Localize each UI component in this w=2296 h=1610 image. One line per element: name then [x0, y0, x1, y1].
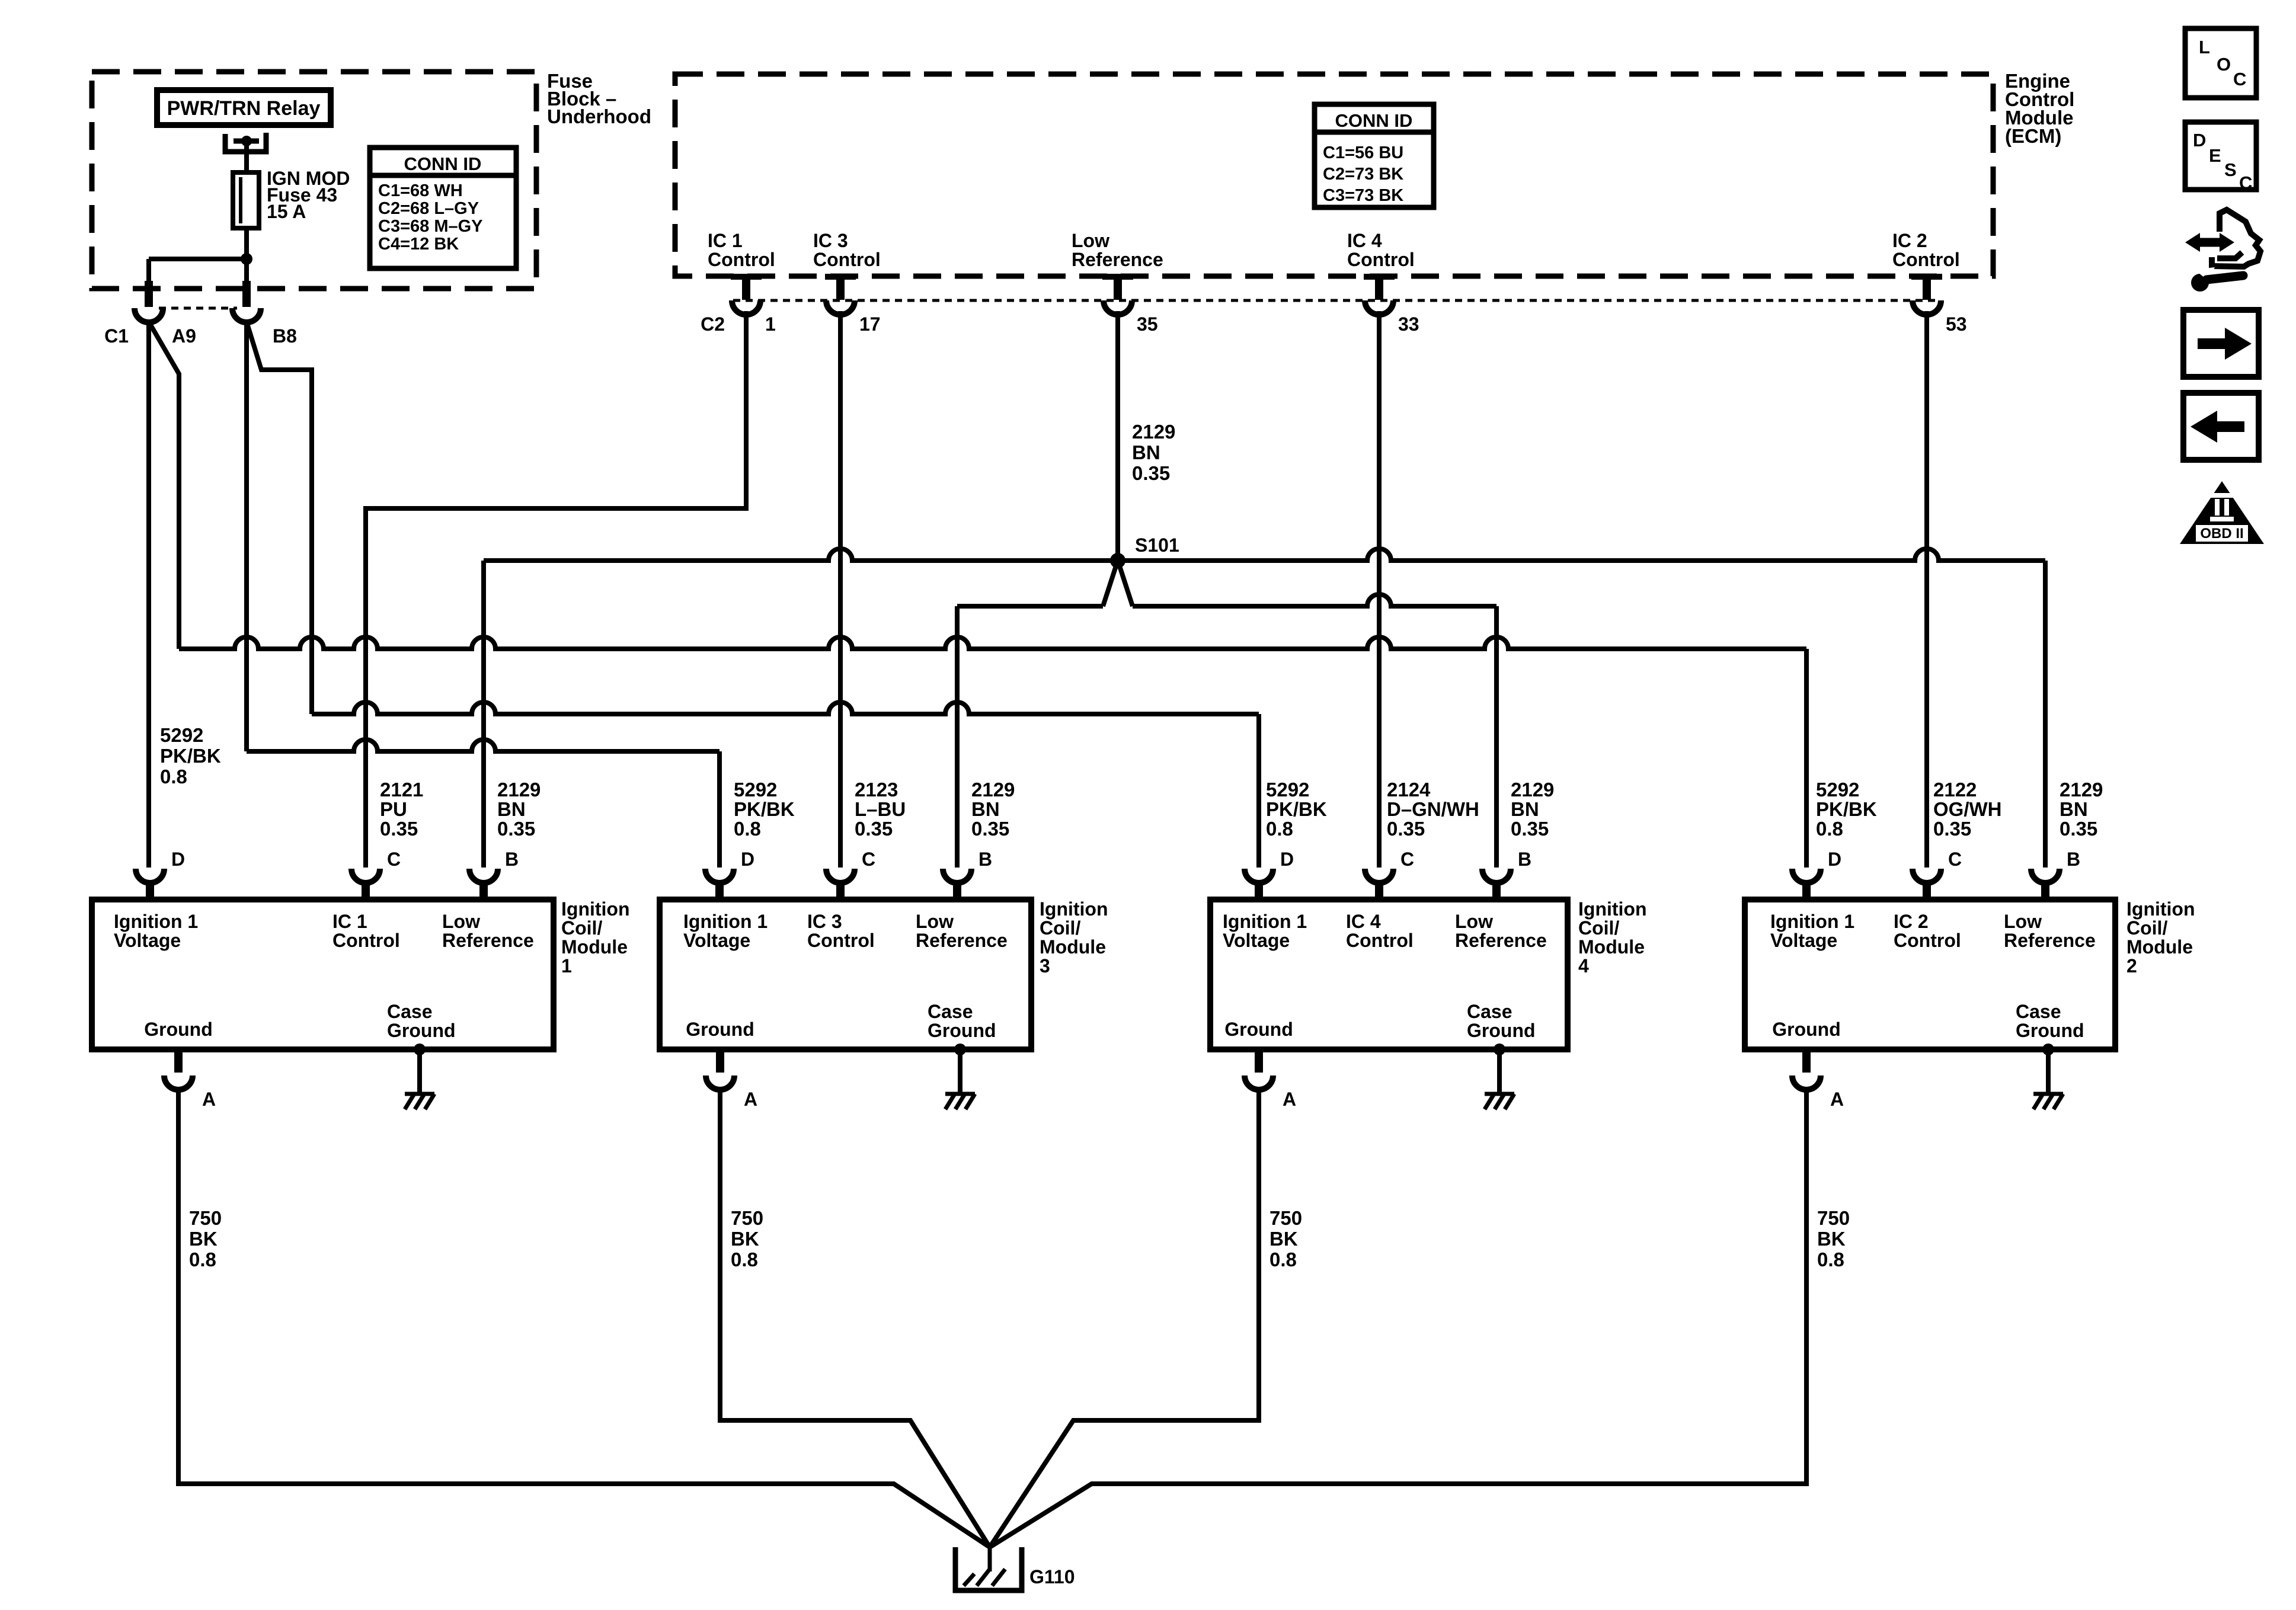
- coil4 pin A cup: [1245, 1076, 1273, 1090]
- coil3 pin C stub: [836, 882, 845, 902]
- conn table CONN ID (fuse block): [370, 148, 516, 268]
- svg-text:Coil/: Coil/: [1040, 917, 1080, 939]
- conn table CONN ID (ECM): [1315, 104, 1434, 207]
- svg-text:OG/WH: OG/WH: [1933, 798, 2001, 820]
- svg-text:G110: G110: [1029, 1566, 1075, 1587]
- svg-text:5292: 5292: [1816, 779, 1859, 801]
- svg-text:Ground: Ground: [1467, 1020, 1536, 1041]
- svg-text:Reference: Reference: [442, 930, 534, 951]
- ignition coil/module 1 box: [92, 900, 554, 1049]
- icon shift pattern with wrench: [2185, 210, 2260, 292]
- svg-text:D: D: [741, 849, 754, 870]
- svg-text:17: 17: [859, 313, 881, 335]
- coil2 pin A cup: [1792, 1076, 1821, 1090]
- label 2129 BN 0.35 (coil2): [2060, 779, 2103, 840]
- ECM pin 33 stub: [1364, 274, 1395, 300]
- coil1 pin C stub: [362, 882, 370, 902]
- svg-text:C3=73 BK: C3=73 BK: [1323, 186, 1403, 205]
- svg-text:D: D: [2193, 130, 2206, 151]
- svg-text:CONN ID: CONN ID: [1335, 110, 1413, 131]
- svg-text:Control: Control: [708, 249, 775, 270]
- wire 2123 ECM pin17 to coil3 C: [838, 311, 843, 868]
- svg-text:15 A: 15 A: [267, 201, 306, 222]
- wire S101 branch left to coil3 B: [957, 606, 1103, 868]
- svg-text:0.8: 0.8: [160, 766, 187, 788]
- svg-text:D–GN/WH: D–GN/WH: [1387, 798, 1479, 820]
- svg-text:B: B: [2067, 849, 2080, 870]
- coil1 label Case Ground: [387, 1001, 456, 1041]
- svg-text:Underhood: Underhood: [547, 105, 651, 127]
- coil1 label Ignition 1 Voltage: [114, 911, 198, 951]
- label 5292 PK/BK 0.8 (coil4): [1266, 779, 1327, 840]
- svg-text:2121: 2121: [380, 779, 423, 801]
- wire B8 drop to coil3 D: [717, 751, 722, 868]
- coil4 pin D stub: [1255, 882, 1263, 902]
- coil2 pin C label: [1948, 849, 1962, 870]
- svg-text:33: 33: [1398, 313, 1419, 335]
- svg-text:IC 4: IC 4: [1346, 911, 1381, 932]
- coil2 pin B stub: [2041, 882, 2049, 902]
- svg-text:A: A: [1830, 1089, 1844, 1110]
- svg-text:BN: BN: [1132, 441, 1160, 463]
- svg-text:A9: A9: [172, 325, 196, 347]
- svg-text:Reference: Reference: [2004, 930, 2096, 951]
- coil4 pin B cup: [1482, 869, 1511, 883]
- coil3 pin A cup: [706, 1076, 734, 1090]
- coil3 pin C cup: [826, 869, 855, 883]
- coil1 pin C label: [387, 849, 401, 870]
- svg-text:Coil/: Coil/: [1578, 917, 1619, 939]
- svg-text:A: A: [1283, 1089, 1296, 1110]
- svg-text:D: D: [1280, 849, 1294, 870]
- label C2: [701, 313, 725, 335]
- coil2 pin B cup: [2031, 869, 2060, 883]
- svg-text:Control: Control: [1894, 930, 1961, 951]
- svg-text:C: C: [2239, 172, 2252, 193]
- coil4 case ground dot: [1494, 1044, 1505, 1055]
- svg-text:Low: Low: [442, 911, 480, 932]
- label 2129 BN 0.35 (coil4): [1511, 779, 1554, 840]
- svg-text:Reference: Reference: [1455, 930, 1547, 951]
- svg-text:Voltage: Voltage: [1770, 930, 1837, 951]
- coil4 pin C label: [1400, 849, 1414, 870]
- svg-text:Ignition 1: Ignition 1: [114, 911, 198, 932]
- ECM pin 1 label: [708, 230, 775, 270]
- svg-text:5292: 5292: [160, 724, 203, 746]
- svg-text:4: 4: [1578, 955, 1589, 977]
- svg-text:Ground: Ground: [2016, 1020, 2084, 1041]
- svg-text:0.35: 0.35: [380, 818, 418, 840]
- svg-text:Low: Low: [1072, 230, 1109, 251]
- ignition coil/module 3 box: [660, 900, 1031, 1049]
- label 2124 D-GN/WH 0.35: [1387, 779, 1479, 840]
- svg-text:Ignition 1: Ignition 1: [1770, 911, 1854, 932]
- wire A9 bus drop to coil2 D: [1804, 649, 1809, 868]
- svg-text:Control: Control: [1346, 930, 1414, 951]
- svg-text:C4=12 BK: C4=12 BK: [378, 235, 459, 254]
- coil1 label IC 1 Control: [332, 911, 400, 951]
- svg-text:Low: Low: [2004, 911, 2042, 932]
- coil1 pin B label: [505, 849, 519, 870]
- wire 750 coil2 A to G110: [990, 1087, 1806, 1547]
- svg-text:0.35: 0.35: [2060, 818, 2097, 840]
- svg-text:0.35: 0.35: [497, 818, 535, 840]
- svg-text:Ignition: Ignition: [2126, 898, 2195, 920]
- svg-text:Control: Control: [1892, 249, 1960, 270]
- coil4 pin D cup: [1245, 869, 1273, 883]
- icon OBD II triangle: [2180, 481, 2264, 544]
- ECM pin 53 label: [1892, 230, 1960, 270]
- svg-text:IC 3: IC 3: [807, 911, 842, 932]
- svg-text:PK/BK: PK/BK: [160, 745, 221, 767]
- ECM pin 33 connector cup: [1365, 300, 1393, 315]
- wire S101 bus drop to coil2 B: [2043, 561, 2048, 868]
- svg-text:IC 2: IC 2: [1892, 230, 1927, 251]
- coil2 label Case Ground: [2016, 1001, 2084, 1041]
- label Fuse Block - Underhood: [547, 70, 651, 127]
- svg-text:2: 2: [2126, 955, 2137, 977]
- svg-text:C: C: [862, 849, 875, 870]
- coil4 pin C stub: [1375, 882, 1383, 902]
- label 750 BK 0.8 (coil1): [189, 1207, 222, 1270]
- svg-text:2124: 2124: [1387, 779, 1431, 801]
- splice S101 dot: [1110, 553, 1125, 568]
- svg-text:S: S: [2224, 159, 2237, 180]
- svg-text:2129: 2129: [2060, 779, 2103, 801]
- coil4 label Low Reference: [1455, 911, 1547, 951]
- ignition coil/module 2 box: [1745, 900, 2115, 1049]
- coil1 side label Ignition Coil/ Module 1: [561, 898, 630, 977]
- coil3 label Case Ground: [928, 1001, 996, 1041]
- svg-text:5292: 5292: [1266, 779, 1309, 801]
- wire 2121 ECM pin1 jog: [366, 311, 746, 868]
- junction dot fuse block: [241, 253, 252, 265]
- svg-text:Case: Case: [387, 1001, 433, 1022]
- ECM pin 17 stub: [825, 274, 856, 300]
- coil2 pin D cup: [1792, 869, 1821, 883]
- ground G110 symbol: [955, 1547, 1022, 1590]
- ECM dashed enclosure: [675, 74, 1993, 276]
- svg-text:0.8: 0.8: [1266, 818, 1293, 840]
- svg-text:Coil/: Coil/: [561, 917, 602, 939]
- svg-text:Module: Module: [561, 936, 628, 958]
- coil2 label Low Reference: [2004, 911, 2096, 951]
- svg-text:L: L: [2199, 37, 2210, 57]
- label 750 BK 0.8 (coil2): [1817, 1207, 1850, 1270]
- svg-text:1: 1: [561, 955, 572, 977]
- svg-text:C: C: [387, 849, 401, 870]
- wire fuse-block branch to A9: [149, 259, 247, 281]
- svg-text:0.8: 0.8: [1817, 1249, 1844, 1270]
- coil2 chassis ground symbol: [2033, 1094, 2063, 1109]
- coil2 pin D label: [1828, 849, 1841, 870]
- coil1 pin B cup: [469, 869, 498, 883]
- svg-text:BK: BK: [731, 1228, 759, 1250]
- coil1 case ground stem: [417, 1049, 422, 1094]
- label 2123 L-BU 0.35: [855, 779, 906, 840]
- svg-text:C: C: [2233, 69, 2246, 89]
- svg-text:2129: 2129: [1511, 779, 1554, 801]
- label G110: [1029, 1566, 1075, 1587]
- connector cup C1/B8: [232, 308, 261, 322]
- svg-text:BK: BK: [1269, 1228, 1298, 1250]
- ECM pin 33 label: [1347, 230, 1415, 270]
- coil4 pin D label: [1280, 849, 1294, 870]
- coil1 pin C cup: [351, 869, 380, 883]
- coil3 pin D cup: [705, 869, 734, 883]
- svg-text:2123: 2123: [855, 779, 898, 801]
- svg-text:0.35: 0.35: [971, 818, 1009, 840]
- label 2129 BN 0.35 (coil3): [971, 779, 1015, 840]
- svg-text:C2=73 BK: C2=73 BK: [1323, 165, 1403, 184]
- wire 750 coil3 A to G110: [720, 1087, 990, 1547]
- ECM pin 35 label: [1072, 230, 1163, 270]
- svg-text:IC 1: IC 1: [708, 230, 743, 251]
- svg-text:Case: Case: [2016, 1001, 2061, 1022]
- coil2 label Ground: [1772, 1019, 1841, 1040]
- coil3 pin D stub: [715, 882, 724, 902]
- label 5292 PK/BK 0.8 (coil1): [160, 724, 221, 788]
- fuse F43 IGN MOD symbol: [233, 172, 259, 228]
- wire S101 V diagonals: [1103, 561, 1133, 606]
- connector cup C1/A9: [135, 308, 163, 322]
- svg-text:C1: C1: [104, 325, 129, 347]
- coil3 label Ignition 1 Voltage: [683, 911, 768, 951]
- coil2 side label Ignition Coil/ Module 2: [2126, 898, 2195, 977]
- connector dotted line C2 (ECM): [733, 299, 1940, 302]
- svg-text:C: C: [1400, 849, 1414, 870]
- wire S101 branch right to coil4 B: [1133, 594, 1496, 868]
- label 750 BK 0.8 (coil3): [731, 1207, 763, 1270]
- coil4 label Ignition 1 Voltage: [1223, 911, 1307, 951]
- svg-text:750: 750: [731, 1207, 763, 1229]
- wire B8 bus to coil3 D: [247, 740, 720, 751]
- svg-text:0.8: 0.8: [189, 1249, 216, 1270]
- wire B8 branch drop to coil4 D: [1256, 714, 1261, 868]
- wire 2129 ECM pin35 to S101: [1115, 311, 1120, 561]
- svg-text:PK/BK: PK/BK: [1266, 798, 1327, 820]
- wire 2122 ECM pin53 to coil2 C: [1924, 311, 1929, 868]
- svg-text:1: 1: [765, 313, 776, 335]
- wire 750 coil1 A to G110: [178, 1087, 990, 1547]
- svg-text:BK: BK: [189, 1228, 218, 1250]
- svg-text:C3=68 M–GY: C3=68 M–GY: [378, 217, 483, 236]
- svg-text:Ignition 1: Ignition 1: [1223, 911, 1307, 932]
- label Engine Control Module (ECM): [2005, 70, 2074, 147]
- svg-text:B: B: [978, 849, 992, 870]
- svg-text:5292: 5292: [734, 779, 777, 801]
- label C1: [104, 325, 129, 347]
- relay contact bracket: [225, 133, 266, 152]
- svg-text:O: O: [2217, 54, 2231, 75]
- ECM pin 17 connector cup: [826, 300, 855, 315]
- svg-text:D: D: [171, 849, 185, 870]
- svg-text:Ground: Ground: [387, 1020, 456, 1041]
- svg-text:Ignition 1: Ignition 1: [683, 911, 768, 932]
- svg-text:IC 2: IC 2: [1894, 911, 1929, 932]
- coil3 label Ground: [686, 1019, 754, 1040]
- fuse block - underhood dashed enclosure: [92, 72, 536, 289]
- wire 750 coil4 A to G110: [990, 1087, 1259, 1547]
- wire 2129 S101 bus: [484, 549, 2045, 561]
- svg-text:Low: Low: [916, 911, 954, 932]
- coil3 chassis ground symbol: [945, 1094, 975, 1109]
- svg-text:Voltage: Voltage: [683, 930, 750, 951]
- icon DESC box: [2185, 122, 2256, 193]
- svg-text:C2=68 L–GY: C2=68 L–GY: [378, 199, 479, 218]
- svg-text:C2: C2: [701, 313, 725, 335]
- svg-text:750: 750: [1817, 1207, 1850, 1229]
- svg-text:0.8: 0.8: [1816, 818, 1843, 840]
- coil1 label Ground: [144, 1019, 213, 1040]
- svg-text:0.8: 0.8: [1269, 1249, 1297, 1270]
- coil3 case ground dot: [954, 1044, 966, 1055]
- svg-text:0.35: 0.35: [855, 818, 893, 840]
- label 2121 PU 0.35: [380, 779, 423, 840]
- svg-text:Ground: Ground: [1772, 1019, 1841, 1040]
- ECM pin 17 label: [813, 230, 881, 270]
- coil2 pin B label: [2067, 849, 2080, 870]
- coil3 label Low Reference: [916, 911, 1008, 951]
- svg-text:B: B: [505, 849, 519, 870]
- coil4 pin B label: [1518, 849, 1531, 870]
- coil4 case ground stem: [1497, 1049, 1502, 1094]
- svg-text:2129: 2129: [971, 779, 1015, 801]
- coil2 case ground dot: [2042, 1044, 2054, 1055]
- svg-text:Module: Module: [1040, 936, 1106, 958]
- svg-text:BN: BN: [1511, 798, 1539, 820]
- svg-text:Control: Control: [807, 930, 875, 951]
- pin A9 stub: [145, 281, 153, 307]
- svg-text:D: D: [1828, 849, 1841, 870]
- coil3 side label Ignition Coil/ Module 3: [1040, 898, 1108, 977]
- svg-text:S101: S101: [1135, 534, 1179, 556]
- svg-text:(ECM): (ECM): [2005, 125, 2061, 147]
- ECM pin 53 stub: [1911, 274, 1942, 300]
- icon forward arrow box: [2183, 310, 2259, 377]
- label 5292 PK/BK 0.8 (coil2): [1816, 779, 1877, 840]
- svg-text:Ground: Ground: [144, 1019, 213, 1040]
- coil4 pin C cup: [1365, 869, 1393, 883]
- ECM pin 53 connector cup: [1913, 300, 1941, 315]
- coil2 pin C stub: [1923, 882, 1931, 902]
- ECM pin 35 connector cup: [1104, 300, 1132, 315]
- label 5292 PK/BK 0.8 (coil3): [734, 779, 795, 840]
- svg-text:E: E: [2209, 145, 2221, 166]
- label 750 BK 0.8 (coil4): [1269, 1207, 1302, 1270]
- svg-text:PU: PU: [380, 798, 407, 820]
- svg-text:Ground: Ground: [1224, 1019, 1293, 1040]
- label pin number 1: [765, 313, 776, 335]
- pin B8 stub: [242, 281, 251, 307]
- coil1 label Low Reference: [442, 911, 534, 951]
- svg-text:Low: Low: [1455, 911, 1493, 932]
- svg-text:C1=68 WH: C1=68 WH: [378, 181, 463, 200]
- coil1 chassis ground symbol: [405, 1094, 434, 1109]
- svg-text:0.8: 0.8: [731, 1249, 758, 1270]
- coil1 pin D cup: [136, 869, 164, 883]
- icon back arrow box: [2183, 393, 2259, 460]
- wire fuse output vertical: [244, 228, 249, 281]
- svg-text:0.35: 0.35: [1387, 818, 1425, 840]
- wire B8 branch bus to coil4 D: [312, 702, 1259, 714]
- label 2122 OG/WH 0.35: [1933, 779, 2001, 840]
- label A9: [172, 325, 196, 347]
- coil2 case ground stem: [2046, 1049, 2051, 1094]
- svg-text:IC 3: IC 3: [813, 230, 848, 251]
- svg-text:Ground: Ground: [686, 1019, 754, 1040]
- svg-text:PK/BK: PK/BK: [734, 798, 795, 820]
- coil3 label IC 3 Control: [807, 911, 875, 951]
- svg-text:750: 750: [189, 1207, 222, 1229]
- wire A9 branch diagonal: [149, 322, 179, 649]
- label 2129 BN 0.35 (coil1): [497, 779, 541, 840]
- svg-text:0.35: 0.35: [1132, 462, 1170, 484]
- coil3 pin B stub: [953, 882, 961, 902]
- svg-text:PWR/TRN Relay: PWR/TRN Relay: [167, 97, 321, 120]
- svg-text:2129: 2129: [497, 779, 541, 801]
- svg-text:Coil/: Coil/: [2126, 917, 2167, 939]
- label S101: [1135, 534, 1179, 556]
- svg-text:0.35: 0.35: [1933, 818, 1971, 840]
- coil4 pin B stub: [1492, 882, 1501, 902]
- svg-text:2122: 2122: [1933, 779, 1977, 801]
- ignition coil/module 4 box: [1210, 900, 1568, 1049]
- svg-text:Case: Case: [928, 1001, 973, 1022]
- coil3 pin B cup: [943, 869, 971, 883]
- coil4 pin A label: [1283, 1089, 1296, 1110]
- coil4 label IC 4 Control: [1346, 911, 1414, 951]
- svg-text:Case: Case: [1467, 1001, 1512, 1022]
- wire 2124 ECM pin33 to coil4 C: [1377, 311, 1382, 868]
- svg-text:BN: BN: [971, 798, 1000, 820]
- svg-text:0.35: 0.35: [1511, 818, 1549, 840]
- coil2 label IC 2 Control: [1894, 911, 1961, 951]
- wire B8 branch diagonal: [247, 322, 312, 714]
- coil4 side label Ignition Coil/ Module 4: [1578, 898, 1647, 977]
- coil3 pin D label: [741, 849, 754, 870]
- coil1 case ground dot: [414, 1044, 426, 1055]
- svg-text:IC 1: IC 1: [332, 911, 367, 932]
- coil2 pin A stub: [1802, 1047, 1811, 1073]
- svg-text:0.8: 0.8: [734, 818, 761, 840]
- ECM pin 1 connector cup: [732, 300, 760, 315]
- svg-text:B: B: [1518, 849, 1531, 870]
- svg-text:Ignition: Ignition: [1578, 898, 1647, 920]
- svg-text:Control: Control: [813, 249, 881, 270]
- svg-text:A: A: [744, 1089, 757, 1110]
- svg-text:IC 4: IC 4: [1347, 230, 1382, 251]
- svg-text:3: 3: [1040, 955, 1050, 977]
- svg-text:Ground: Ground: [928, 1020, 996, 1041]
- svg-text:BK: BK: [1817, 1228, 1846, 1250]
- ECM pin 35 stub: [1102, 274, 1133, 300]
- coil2 pin A label: [1830, 1089, 1844, 1110]
- coil4 pin A stub: [1255, 1047, 1263, 1073]
- label pin number 53: [1946, 313, 1967, 335]
- ECM pin 1 stub: [731, 274, 762, 300]
- svg-text:BN: BN: [2060, 798, 2088, 820]
- coil1 pin A label: [202, 1089, 216, 1110]
- svg-text:L–BU: L–BU: [855, 798, 906, 820]
- connector dotted line C1 (fuse block): [159, 307, 237, 310]
- svg-text:Voltage: Voltage: [114, 930, 181, 951]
- relay PWR/TRN Relay box: [157, 90, 331, 125]
- svg-text:C: C: [1948, 849, 1962, 870]
- coil3 pin C label: [862, 849, 875, 870]
- svg-text:750: 750: [1269, 1207, 1302, 1229]
- svg-text:B8: B8: [273, 325, 297, 347]
